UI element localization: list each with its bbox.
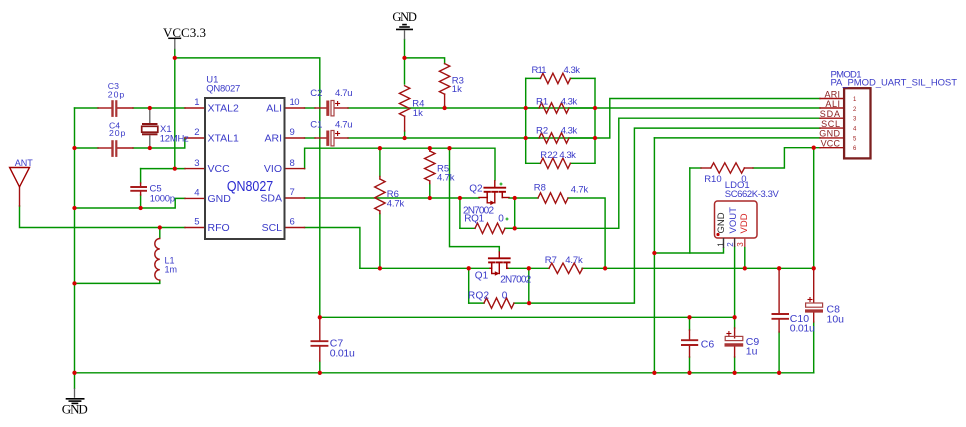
svg-text:RFO: RFO xyxy=(208,222,230,234)
svg-text:2N7002: 2N7002 xyxy=(500,274,531,285)
svg-text:R10: R10 xyxy=(704,174,721,185)
svg-text:XTAL1: XTAL1 xyxy=(208,133,239,145)
svg-text:ARI: ARI xyxy=(825,89,841,99)
svg-text:SCL: SCL xyxy=(262,222,283,234)
svg-text:VIO: VIO xyxy=(264,163,282,175)
svg-text:R22: R22 xyxy=(540,150,558,161)
svg-text:SC662K-3.3V: SC662K-3.3V xyxy=(725,189,780,200)
svg-text:R7: R7 xyxy=(545,255,557,266)
svg-text:4.3k: 4.3k xyxy=(561,97,578,108)
svg-text:0: 0 xyxy=(502,290,508,301)
svg-text:1k: 1k xyxy=(413,108,423,119)
svg-text:3: 3 xyxy=(194,158,199,169)
svg-text:1k: 1k xyxy=(452,84,462,95)
svg-text:GND: GND xyxy=(716,212,727,233)
svg-text:XTAL2: XTAL2 xyxy=(208,103,239,115)
svg-text:ALI: ALI xyxy=(266,103,282,115)
svg-text:1u: 1u xyxy=(746,346,758,358)
svg-text:VDD: VDD xyxy=(739,213,750,233)
svg-text:12MHz: 12MHz xyxy=(160,133,189,144)
svg-text:2: 2 xyxy=(726,242,735,247)
svg-text:SDA: SDA xyxy=(260,193,282,205)
svg-text:1: 1 xyxy=(716,242,725,247)
svg-text:4.7u: 4.7u xyxy=(335,88,353,99)
svg-text:C6: C6 xyxy=(701,338,715,350)
svg-text:VCC: VCC xyxy=(821,139,841,149)
svg-text:RQ2: RQ2 xyxy=(468,290,489,301)
svg-text:ANT: ANT xyxy=(15,158,34,168)
svg-text:4.7k: 4.7k xyxy=(437,173,455,184)
svg-text:4.7u: 4.7u xyxy=(335,120,353,131)
svg-text:C1: C1 xyxy=(310,120,322,131)
svg-text:SCL: SCL xyxy=(821,119,840,129)
svg-text:Q2: Q2 xyxy=(469,183,483,194)
svg-text:ALI: ALI xyxy=(825,99,840,109)
svg-text:5: 5 xyxy=(194,217,199,228)
svg-text:10u: 10u xyxy=(827,313,845,325)
svg-text:GND: GND xyxy=(819,129,840,139)
svg-text:0.01u: 0.01u xyxy=(790,323,815,335)
svg-text:0: 0 xyxy=(498,214,504,225)
svg-text:1000p: 1000p xyxy=(150,193,175,204)
svg-text:3: 3 xyxy=(736,242,745,247)
svg-text:2: 2 xyxy=(194,127,199,138)
svg-text:1m: 1m xyxy=(165,265,178,275)
svg-text:VOUT: VOUT xyxy=(728,207,739,234)
svg-text:Q1: Q1 xyxy=(475,270,489,281)
svg-text:RQ1: RQ1 xyxy=(464,214,484,225)
svg-text:4.3k: 4.3k xyxy=(559,150,576,161)
svg-text:1: 1 xyxy=(194,97,199,108)
svg-text:9: 9 xyxy=(290,127,295,138)
svg-text:7: 7 xyxy=(290,187,295,198)
svg-text:20p: 20p xyxy=(109,128,126,138)
svg-text:QN8027: QN8027 xyxy=(206,84,240,95)
svg-text:20p: 20p xyxy=(108,90,125,100)
svg-text:QN8027: QN8027 xyxy=(227,178,273,194)
svg-text:4.3k: 4.3k xyxy=(561,125,578,136)
svg-text:ARI: ARI xyxy=(264,133,282,145)
svg-text:6: 6 xyxy=(290,217,295,228)
svg-text:VCC: VCC xyxy=(208,163,231,175)
svg-text:GND: GND xyxy=(62,402,88,417)
svg-text:4: 4 xyxy=(194,188,199,199)
svg-text:0.01u: 0.01u xyxy=(330,347,355,359)
svg-text:R11: R11 xyxy=(532,65,547,76)
svg-text:R2: R2 xyxy=(536,125,548,136)
svg-text:VCC3.3: VCC3.3 xyxy=(163,25,206,40)
svg-text:8: 8 xyxy=(290,158,295,169)
svg-text:4.7k: 4.7k xyxy=(571,185,589,196)
svg-text:SDA: SDA xyxy=(820,109,840,119)
svg-text:10: 10 xyxy=(290,97,300,108)
svg-text:C2: C2 xyxy=(310,88,322,99)
svg-text:R8: R8 xyxy=(534,182,546,193)
svg-text:PA_PMOD_UART_SIL_HOST: PA_PMOD_UART_SIL_HOST xyxy=(831,78,958,89)
svg-text:4.3k: 4.3k xyxy=(564,65,581,76)
svg-text:4.7k: 4.7k xyxy=(387,198,405,209)
svg-text:R1: R1 xyxy=(536,97,548,108)
svg-text:GND: GND xyxy=(208,193,232,205)
svg-text:4.7k: 4.7k xyxy=(565,255,583,266)
svg-text:GND: GND xyxy=(392,10,417,24)
